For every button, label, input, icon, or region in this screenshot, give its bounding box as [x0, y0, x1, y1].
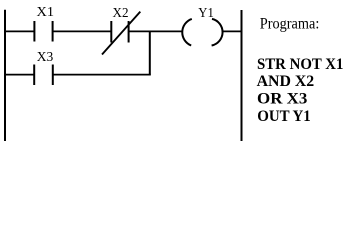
- wire X1 to X2: [53, 30, 112, 32]
- svg-text:Programa:: Programa:: [260, 16, 320, 33]
- svg-text:OR X3: OR X3: [257, 91, 307, 108]
- contact X3: [34, 65, 53, 86]
- wire X2 to coil Y1: [129, 30, 183, 32]
- node junction branch: [149, 31, 151, 74]
- wire X3 to branch junction: [53, 74, 151, 76]
- left power rail: [4, 10, 6, 141]
- wire rung1 left rail to X1: [5, 30, 34, 32]
- svg-text:AND X2: AND X2: [257, 73, 315, 90]
- svg-text:X3: X3: [37, 50, 54, 65]
- svg-text:Y1: Y1: [198, 6, 214, 21]
- wire coil to right rail: [223, 30, 242, 32]
- svg-text:X2: X2: [113, 6, 129, 21]
- svg-text:STR NOT X1: STR NOT X1: [257, 56, 343, 73]
- contact X2 (normally closed): [102, 12, 140, 55]
- right power rail: [241, 10, 243, 141]
- svg-text:X1: X1: [37, 5, 55, 20]
- wire rung2 left rail to X3: [5, 74, 34, 76]
- contact X1: [34, 21, 52, 42]
- coil Y1: [182, 19, 222, 46]
- svg-text:OUT Y1: OUT Y1: [257, 108, 311, 125]
